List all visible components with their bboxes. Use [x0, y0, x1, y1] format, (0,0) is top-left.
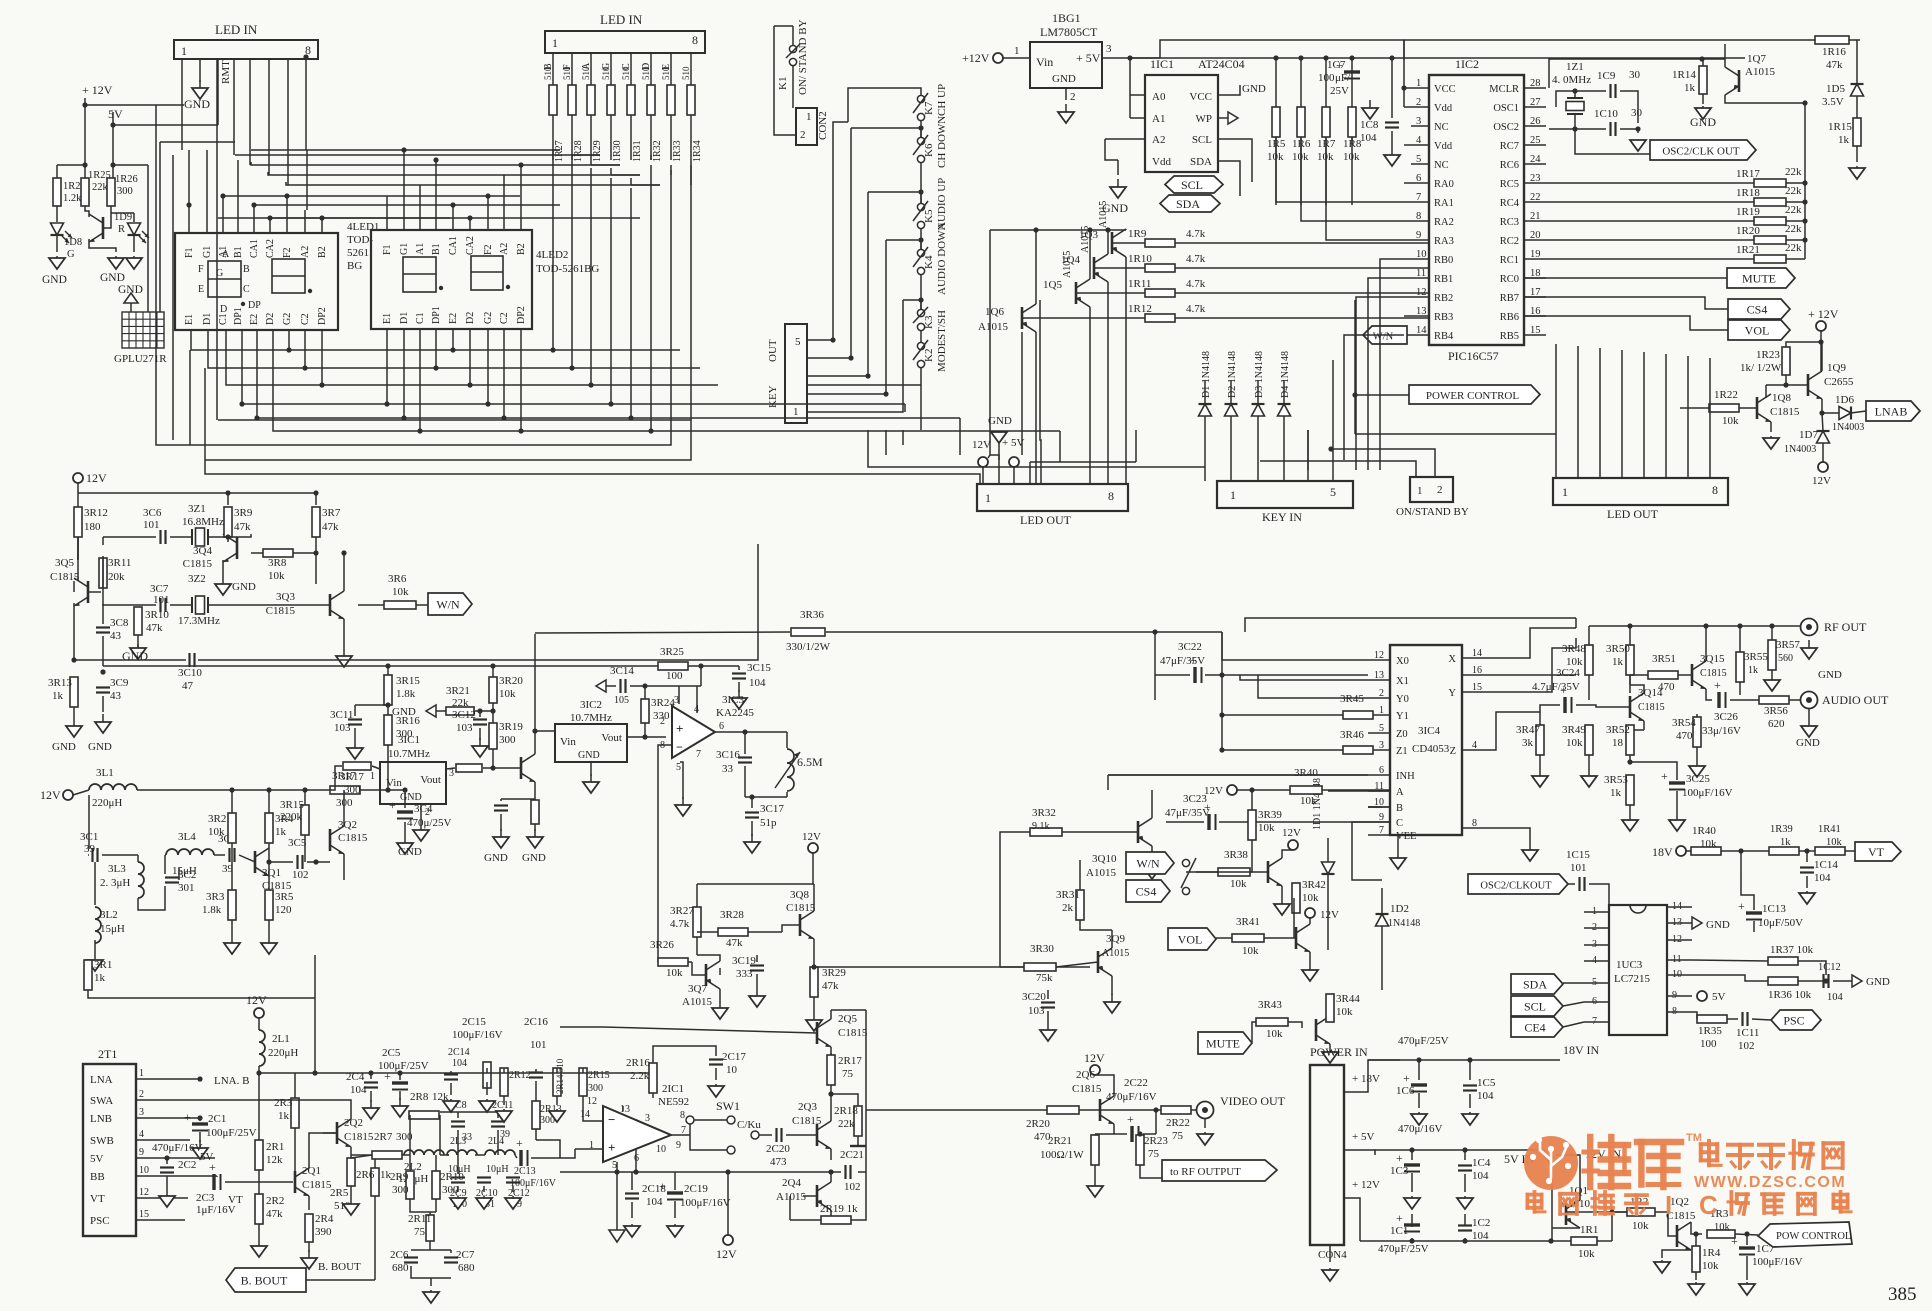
inductor 3L3 2.3uH	[138, 862, 144, 898]
svg-text:10k: 10k	[1632, 1220, 1649, 1232]
svg-text:1R19: 1R19	[1736, 206, 1760, 218]
svg-text:F1: F1	[184, 247, 195, 258]
resistor 3R9 47k	[224, 507, 232, 537]
svg-text:470μF/25V: 470μF/25V	[1378, 1243, 1429, 1255]
resistor 2R4 390	[305, 1214, 313, 1242]
transistor 1Q9 C2655	[1808, 371, 1822, 399]
svg-text:3R21: 3R21	[446, 685, 470, 697]
wire	[0, 0, 1, 1]
resistor 2R7 300	[372, 1151, 402, 1159]
svg-text:I: I	[1665, 1190, 1672, 1220]
svg-text:RC4: RC4	[1500, 198, 1520, 209]
svg-text:E2: E2	[249, 314, 260, 325]
svg-text:X0: X0	[1396, 656, 1409, 667]
ground	[1532, 768, 1548, 787]
svg-text:100μF/16V: 100μF/16V	[1752, 1256, 1803, 1268]
net tag MUTE	[1727, 268, 1795, 288]
svg-text:C1815: C1815	[1072, 1083, 1102, 1095]
resistor R-inline	[456, 764, 482, 772]
ground	[49, 256, 65, 269]
wire	[103, 534, 316, 584]
capacitor 3C5 102	[298, 855, 303, 869]
svg-text:A1015: A1015	[1086, 867, 1116, 879]
svg-text:RB4: RB4	[1434, 331, 1454, 342]
svg-text:1k: 1k	[94, 972, 106, 984]
transistor 1Q1 A5610	[1566, 1200, 1580, 1228]
svg-text:2Q6: 2Q6	[1076, 1069, 1095, 1081]
svg-text:220μH: 220μH	[92, 797, 122, 809]
svg-text:CH DOWN: CH DOWN	[936, 116, 948, 168]
wire	[653, 1046, 716, 1098]
svg-text:10k: 10k	[1242, 945, 1259, 957]
svg-text:120: 120	[275, 904, 292, 916]
display 4LED2 TOD-5261BG	[371, 230, 532, 329]
wire	[1327, 838, 1329, 950]
svg-text:RA1: RA1	[1434, 198, 1454, 209]
junction dots	[1738, 848, 1809, 853]
svg-text:12V: 12V	[802, 831, 821, 843]
ground	[1622, 812, 1638, 831]
svg-text:2R11: 2R11	[408, 1213, 431, 1225]
svg-text:CA1: CA1	[249, 239, 260, 258]
svg-text:RB2: RB2	[1434, 293, 1453, 304]
ground	[1110, 179, 1126, 198]
connector CON4	[1310, 1065, 1344, 1245]
svg-text:GND: GND	[42, 274, 67, 286]
junction dots	[532, 728, 537, 733]
wire	[553, 150, 691, 185]
svg-text:47: 47	[182, 680, 194, 692]
svg-text:LM7805CT: LM7805CT	[1040, 25, 1098, 39]
svg-text:3IC1: 3IC1	[398, 734, 420, 746]
svg-text:1: 1	[139, 1068, 144, 1079]
svg-text:GND: GND	[988, 415, 1012, 427]
wire	[1584, 927, 1609, 929]
capacitor 1C15 101	[1580, 877, 1585, 891]
wire	[1563, 983, 1584, 1027]
svg-text:17.3MHz: 17.3MHz	[178, 615, 220, 627]
wire	[535, 731, 666, 776]
svg-text:2C3: 2C3	[196, 1192, 215, 1204]
ground	[423, 1290, 439, 1303]
svg-text:47μF/35V: 47μF/35V	[1160, 655, 1205, 667]
svg-text:100: 100	[1700, 1038, 1717, 1050]
svg-text:10k: 10k	[392, 586, 409, 598]
net tag SDA 2	[1511, 974, 1563, 994]
svg-text:MCLR: MCLR	[1489, 84, 1519, 95]
ground	[479, 1099, 495, 1112]
ground	[583, 774, 599, 793]
net tag LNAB	[1866, 401, 1920, 421]
capacitor 3C9 43	[96, 688, 110, 693]
wire	[1047, 1075, 1114, 1134]
junction dots	[341, 550, 346, 555]
svg-text:+: +	[1714, 678, 1721, 692]
terminal 12V wn	[1288, 840, 1298, 850]
resistor 3R17 300	[330, 786, 360, 794]
svg-text:Vdd: Vdd	[1152, 156, 1171, 168]
wire	[644, 686, 646, 737]
svg-text:4.7k: 4.7k	[1186, 278, 1206, 290]
svg-text:D1: D1	[399, 312, 410, 324]
svg-text:1R12: 1R12	[1128, 303, 1152, 315]
wire	[866, 1109, 1156, 1111]
capacitor 3C3 39	[230, 848, 235, 862]
svg-text:1C9: 1C9	[1597, 70, 1616, 82]
svg-text:D1 1N4148: D1 1N4148	[1201, 351, 1212, 398]
svg-text:1D5: 1D5	[1826, 83, 1845, 95]
svg-text:1: 1	[370, 771, 375, 782]
capacitor 2C7 680	[444, 1258, 458, 1263]
svg-text:W/N: W/N	[1373, 332, 1394, 343]
svg-text:5V: 5V	[90, 1153, 104, 1165]
svg-text:to RF OUTPUT: to RF OUTPUT	[1170, 1166, 1241, 1178]
svg-text:+ 5V: + 5V	[1352, 1131, 1374, 1143]
svg-text:3: 3	[1106, 43, 1112, 55]
svg-text:5: 5	[1330, 485, 1336, 499]
svg-text:+: +	[516, 1136, 523, 1150]
wire	[1196, 850, 1293, 898]
svg-text:3R15: 3R15	[280, 799, 304, 811]
svg-text:8: 8	[680, 1110, 685, 1121]
svg-text:A1015: A1015	[1062, 251, 1073, 278]
ground	[192, 1140, 208, 1159]
wire	[670, 53, 672, 86]
svg-text:KA2245: KA2245	[716, 707, 754, 719]
svg-text:SWB: SWB	[90, 1135, 114, 1147]
svg-text:1C2: 1C2	[1472, 1217, 1490, 1229]
wire	[85, 206, 134, 252]
svg-text:+: +	[676, 721, 683, 736]
svg-text:2Q2: 2Q2	[344, 1117, 363, 1129]
svg-text:2C17: 2C17	[722, 1051, 746, 1063]
junction dots	[303, 54, 308, 59]
capacitor 3C13b	[494, 806, 508, 811]
wire	[690, 1120, 727, 1150]
svg-text:SDA: SDA	[1176, 197, 1200, 211]
junction dots	[225, 534, 318, 555]
svg-text:3R43: 3R43	[1258, 999, 1282, 1011]
junction dots	[385, 663, 390, 792]
transistor 2Q2 C1815	[337, 1119, 351, 1147]
resistor 3R15 220k	[301, 805, 309, 835]
svg-text:C1815: C1815	[1770, 406, 1800, 418]
wire	[1252, 1000, 1330, 1050]
svg-text:2R5: 2R5	[330, 1187, 349, 1199]
svg-text:A: A	[222, 249, 230, 260]
svg-text:3R42: 3R42	[1302, 879, 1326, 891]
wire	[1108, 775, 1368, 790]
resistor 3R45	[1343, 711, 1373, 719]
wire	[1584, 944, 1609, 946]
svg-text:3R2: 3R2	[208, 813, 226, 825]
net tag SCL	[1165, 176, 1223, 193]
transistor 2Q1 C1815	[295, 1168, 309, 1196]
svg-text:104: 104	[1814, 872, 1831, 884]
svg-text:D3 1N4148: D3 1N4148	[1254, 351, 1265, 398]
arrow gnd 3R21	[426, 705, 436, 717]
svg-text:3C10: 3C10	[178, 667, 202, 679]
svg-text:10k: 10k	[1826, 837, 1843, 848]
wire	[803, 1172, 831, 1220]
wire	[1175, 292, 1429, 294]
wire	[1546, 182, 1805, 184]
junction dots	[828, 1091, 833, 1096]
ground	[496, 1109, 512, 1122]
wire pin stubs	[1404, 334, 1429, 336]
capacitor 2C21 102	[846, 1165, 851, 1179]
wire	[1375, 1150, 1545, 1160]
svg-text:3C6: 3C6	[143, 507, 162, 519]
IC 1UC3 LC7215	[1609, 905, 1667, 1035]
svg-text:10k: 10k	[1266, 1028, 1283, 1040]
wire	[1589, 626, 1772, 700]
wire	[1154, 632, 1156, 700]
svg-text:100μF/16V: 100μF/16V	[680, 1197, 731, 1209]
svg-text:3R9: 3R9	[234, 507, 253, 519]
svg-text:1: 1	[1014, 45, 1020, 57]
svg-text:ON/ STAND BY: ON/ STAND BY	[797, 19, 809, 95]
svg-text:NC: NC	[1434, 122, 1449, 133]
capacitor 1C7 100uF/25V	[1336, 58, 1360, 79]
ground	[1462, 1112, 1478, 1125]
ground	[363, 1100, 379, 1119]
svg-text:3R28: 3R28	[720, 909, 744, 921]
junction dots	[830, 125, 923, 396]
svg-text:5V: 5V	[1712, 991, 1726, 1003]
ground	[261, 935, 277, 954]
svg-text:1k: 1k	[1610, 787, 1622, 799]
wire	[751, 821, 753, 836]
svg-text:+: +	[1396, 1151, 1403, 1165]
svg-text:1C13: 1C13	[1762, 903, 1786, 915]
svg-text:A1: A1	[1152, 113, 1165, 125]
svg-text:+: +	[659, 1179, 666, 1193]
svg-text:3C8: 3C8	[110, 617, 129, 629]
resistor 1R10 4.7k	[1145, 264, 1175, 272]
svg-text:C: C	[1396, 818, 1403, 829]
svg-text:2R2: 2R2	[266, 1195, 284, 1207]
wire pin stubs	[1411, 125, 1429, 127]
wire	[189, 150, 660, 218]
svg-text:LNB: LNB	[90, 1113, 112, 1125]
wire	[351, 1155, 410, 1158]
svg-text:Vin: Vin	[1036, 55, 1053, 69]
resistor 1R7 10k	[1322, 107, 1330, 137]
svg-text:1k: 1k	[275, 826, 287, 838]
capacitor 1C10 30	[1611, 122, 1616, 136]
svg-text:14: 14	[580, 1109, 590, 1120]
svg-text:12V: 12V	[1282, 827, 1301, 839]
svg-text:E1: E1	[382, 313, 393, 324]
svg-text:510: 510	[681, 66, 691, 80]
wire	[306, 1268, 375, 1280]
svg-text:2.2k: 2.2k	[630, 1070, 650, 1082]
junction dots	[1137, 1107, 1158, 1136]
wire	[190, 160, 1060, 460]
svg-text:CA1: CA1	[448, 236, 459, 255]
inductor 3L2 15uH	[95, 907, 101, 943]
wire	[610, 53, 612, 86]
resistor 3R30 75k	[1024, 963, 1056, 971]
svg-text:1C14: 1C14	[1814, 859, 1838, 871]
ground	[347, 740, 363, 759]
wire	[1381, 888, 1383, 990]
terminal +5V	[1009, 457, 1019, 467]
svg-text:SCL: SCL	[1524, 1000, 1546, 1014]
resistor 1R8 10k	[1348, 107, 1356, 137]
net tag POWER CONTROL	[1409, 385, 1540, 404]
svg-text:Z0: Z0	[1396, 729, 1408, 740]
capacitor 2C9 100	[451, 1178, 465, 1183]
svg-text:C1815: C1815	[792, 1115, 822, 1127]
ground	[624, 1224, 640, 1237]
svg-text:510: 510	[641, 66, 651, 80]
svg-text:VT: VT	[90, 1193, 105, 1205]
svg-text:2C15: 2C15	[462, 1016, 486, 1028]
svg-text:RC0: RC0	[1500, 274, 1519, 285]
resistor 2C15 cap-stand	[483, 1062, 491, 1088]
svg-text:C1: C1	[415, 312, 426, 324]
svg-text:12V: 12V	[86, 471, 107, 485]
resistor 3R25 100	[658, 662, 688, 670]
connector KEY IN	[1217, 481, 1353, 508]
svg-text:2R3: 2R3	[274, 1097, 293, 1109]
svg-text:1UC3: 1UC3	[1616, 959, 1643, 971]
svg-text:301: 301	[178, 882, 195, 894]
svg-text:3R27: 3R27	[670, 905, 694, 917]
wire	[136, 1139, 160, 1141]
junction dots	[1802, 100, 1807, 242]
capacitor 3C15 104	[732, 674, 746, 679]
svg-text:−: −	[676, 740, 683, 754]
svg-text:1k: 1k	[278, 1110, 290, 1122]
wire	[1584, 1001, 1609, 1003]
arrow gnd 3C14	[596, 680, 606, 692]
svg-text:3R13: 3R13	[48, 677, 72, 689]
svg-text:15: 15	[139, 1209, 149, 1220]
svg-text:CA2: CA2	[265, 239, 276, 258]
wire	[199, 1118, 201, 1142]
resistor 3R51 470	[1648, 671, 1678, 679]
svg-text:MODE: MODE	[936, 339, 948, 372]
svg-text:LNAB: LNAB	[1875, 405, 1908, 419]
wire	[404, 790, 406, 835]
wire	[88, 955, 315, 998]
svg-text:2. 3μH: 2. 3μH	[100, 877, 130, 889]
svg-text:3R30: 3R30	[1030, 943, 1054, 955]
svg-text:2L4: 2L4	[488, 1136, 504, 1147]
junction dots	[1152, 629, 1157, 634]
ground	[1801, 718, 1817, 737]
svg-text:WWW.DZSC.COM: WWW.DZSC.COM	[1694, 1174, 1846, 1191]
svg-text:30: 30	[1631, 107, 1643, 119]
svg-text:470μ/16V: 470μ/16V	[1398, 1123, 1442, 1135]
junction dots	[1819, 410, 1824, 415]
svg-text:100μF/25V: 100μF/25V	[206, 1127, 257, 1139]
svg-text:1C15: 1C15	[1566, 849, 1590, 861]
net tag CS4	[1728, 299, 1790, 319]
ground	[1763, 436, 1779, 449]
svg-text:X: X	[1448, 654, 1456, 665]
svg-text:3IC3: 3IC3	[722, 694, 745, 706]
svg-text:15μH: 15μH	[100, 923, 125, 935]
svg-text:10.7MHz: 10.7MHz	[570, 712, 612, 724]
svg-text:2T1: 2T1	[98, 1047, 117, 1061]
svg-text:VT: VT	[228, 1194, 243, 1206]
svg-text:4.7k: 4.7k	[670, 918, 690, 930]
svg-text:104: 104	[1477, 1090, 1494, 1102]
terminal 12V ne	[723, 1235, 733, 1245]
ground	[476, 1196, 492, 1209]
svg-text:1N4148: 1N4148	[1388, 918, 1420, 929]
capacitor 3C24 4.7uF/35V	[1560, 683, 1572, 713]
resistor 3R5 120	[265, 890, 273, 920]
resistor 3R29 47k	[810, 967, 818, 997]
resistor 3R52 18	[1626, 725, 1634, 755]
svg-text:510: 510	[601, 66, 611, 80]
wire	[1204, 1119, 1206, 1128]
capacitor 2C10 151	[477, 1178, 491, 1183]
wire	[133, 236, 135, 252]
wire	[1584, 1021, 1609, 1023]
junction dots	[197, 1076, 202, 1120]
svg-text:TOD-: TOD-	[347, 234, 373, 246]
svg-text:3R47: 3R47	[1516, 724, 1540, 736]
capacitor 1C6	[1403, 1071, 1427, 1092]
svg-text:OSC1: OSC1	[1493, 103, 1519, 114]
wire	[1155, 632, 1368, 675]
junction dots	[229, 787, 318, 864]
resistor 2R12	[500, 1068, 508, 1096]
svg-text:10μH: 10μH	[448, 1164, 471, 1175]
svg-text:1R16: 1R16	[1822, 46, 1846, 58]
svg-text:E2: E2	[448, 313, 459, 324]
svg-text:75: 75	[414, 1226, 426, 1238]
svg-text:2: 2	[660, 716, 665, 727]
ground	[1058, 104, 1074, 123]
connector LED IN (left)	[174, 40, 318, 59]
ground	[336, 648, 352, 667]
svg-text:K5: K5	[923, 209, 935, 223]
wire	[1856, 146, 1858, 162]
ground	[744, 834, 760, 853]
svg-text:2C7: 2C7	[456, 1249, 475, 1261]
resistor 3R50 1k	[1626, 645, 1634, 675]
svg-text:C1815: C1815	[786, 902, 816, 914]
svg-text:3R39: 3R39	[1258, 809, 1282, 821]
svg-text:LED OUT: LED OUT	[1020, 513, 1072, 527]
wire	[1806, 876, 1808, 888]
resistor 1R29 510	[587, 85, 595, 115]
wire	[1766, 375, 1808, 398]
net tag B.BOUT	[226, 1268, 306, 1292]
ground	[1104, 994, 1120, 1013]
svg-text:47k: 47k	[322, 521, 339, 533]
ground	[712, 1000, 728, 1019]
svg-text:33: 33	[722, 763, 734, 775]
resistor 1R2 10k	[1627, 1208, 1655, 1216]
resistor 1R14 1k	[1699, 66, 1707, 94]
wire	[727, 1172, 729, 1235]
wire	[690, 115, 692, 160]
svg-text:3R49: 3R49	[1562, 724, 1586, 736]
resistor 2R20 470	[1047, 1106, 1079, 1114]
svg-text:+ 12V: + 12V	[1352, 1179, 1380, 1191]
svg-text:C1815: C1815	[838, 1027, 868, 1039]
capacitor 3C2 301	[165, 878, 179, 883]
wire	[446, 768, 521, 769]
